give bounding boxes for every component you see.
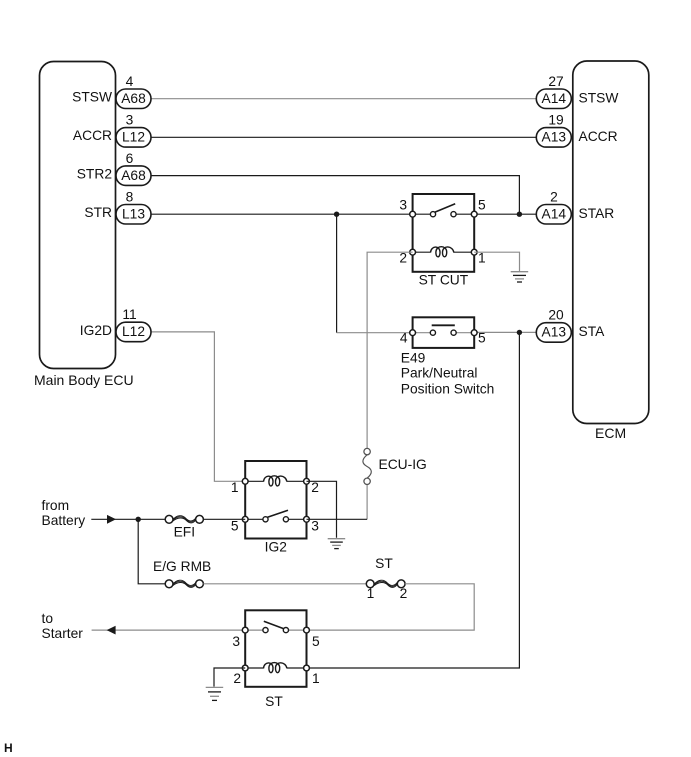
wire ST relay switch row stub pin 5 — [286, 629, 307, 631]
svg-text:A68: A68 — [121, 91, 146, 106]
pin 1 ST relay — [304, 665, 310, 671]
svg-text:STA: STA — [579, 324, 606, 339]
contact circles ST CUT switch — [430, 212, 435, 217]
coil IG2 — [264, 476, 287, 486]
svg-text:A13: A13 — [542, 325, 567, 340]
wire ST CUT pin1 to ground — [474, 252, 519, 271]
svg-text:STR: STR — [84, 205, 112, 220]
pin 2 A14 STAR (ECM) — [536, 189, 614, 224]
svg-text:L12: L12 — [122, 324, 145, 339]
svg-text:Position Switch: Position Switch — [401, 381, 495, 396]
svg-text:20: 20 — [548, 308, 564, 323]
svg-text:STSW: STSW — [579, 91, 619, 106]
relay ST CUT — [399, 194, 486, 288]
pin 3 IG2 — [304, 516, 310, 522]
svg-text:Park/Neutral: Park/Neutral — [401, 366, 478, 381]
svg-text:Main Body ECU: Main Body ECU — [34, 372, 134, 388]
wire ST fuse to ST relay pin5 — [307, 584, 475, 630]
fuse element ECU-IG — [363, 455, 371, 478]
pin 3 ST CUT — [410, 211, 416, 217]
svg-text:ST: ST — [265, 694, 283, 709]
wire E49 row stub pin 4 — [413, 332, 433, 334]
svg-text:ST CUT: ST CUT — [419, 273, 469, 288]
connector oval L12 (IG2D) — [116, 322, 151, 342]
contact circles IG2 switch — [263, 517, 268, 522]
svg-text:5: 5 — [231, 519, 239, 534]
pin 4 A68 STSW (Main Body ECU) — [72, 74, 151, 109]
coil ST relay — [264, 663, 287, 673]
svg-text:2: 2 — [311, 480, 319, 495]
wire ST CUT switch row stub pin 3 — [413, 213, 433, 215]
svg-text:to: to — [42, 611, 54, 626]
ground (ST CUT relay) — [511, 272, 529, 282]
svg-text:3: 3 — [311, 519, 319, 534]
svg-text:A13: A13 — [542, 130, 567, 145]
ground (IG2 relay) — [328, 539, 346, 549]
svg-text:STAR: STAR — [579, 206, 615, 221]
connector oval L13 (STR) — [116, 205, 151, 225]
pin 3 ST relay — [242, 627, 248, 633]
svg-text:4: 4 — [400, 331, 408, 346]
pin 11 L12 IG2D (Main Body ECU) — [80, 307, 151, 342]
fuse element E/G RMB — [173, 580, 196, 587]
svg-text:5: 5 — [312, 634, 320, 649]
svg-text:ACCR: ACCR — [73, 128, 112, 143]
connector oval A68 (STR2) — [116, 166, 151, 186]
wire ST CUT switch row stub pin 5 — [454, 213, 475, 215]
wire IG2 pin3 to ECU-IG — [307, 518, 368, 520]
svg-text:A68: A68 — [121, 168, 146, 183]
pin 5 ST CUT — [471, 211, 477, 217]
wire ST CUT pin2 to ECU-IG — [367, 252, 413, 448]
wire STA down to ST relay pin1 — [307, 332, 520, 668]
wire ST relay coil row stub pin 1 — [287, 667, 307, 669]
coil ST CUT — [431, 247, 454, 257]
fuse terminals ECU-IG — [364, 448, 370, 454]
node junction STR — [334, 212, 339, 217]
svg-text:E/G RMB: E/G RMB — [153, 559, 211, 574]
svg-text:3: 3 — [126, 113, 134, 128]
wire EFI to IG2 pin5 — [203, 518, 245, 520]
svg-text:ECU-IG: ECU-IG — [379, 457, 427, 472]
pin 8 L13 STR (Main Body ECU) — [84, 189, 151, 224]
fuse element ST — [374, 580, 397, 587]
wire E/G RMB to ST fuse — [203, 583, 366, 585]
pin 5 ST relay — [304, 627, 310, 633]
connector oval ECM (STAR) — [536, 205, 571, 225]
svg-text:2: 2 — [550, 189, 558, 204]
ground (ST relay) — [206, 687, 224, 700]
svg-text:5: 5 — [478, 331, 486, 346]
pin 2 ST relay — [242, 665, 248, 671]
svg-text:IG2: IG2 — [265, 540, 287, 555]
wire to starter — [92, 629, 246, 631]
switch blade IG2 — [266, 510, 288, 518]
fuse element EFI — [173, 516, 196, 523]
pin 20 A13 STA (ECM) — [536, 308, 605, 343]
node junction STA — [517, 330, 522, 335]
wire ST CUT coil row stub pin 2 — [413, 251, 431, 253]
wire E49 row stub pin 5 — [454, 332, 475, 334]
wire ST CUT coil row stub pin 1 — [454, 251, 474, 253]
ECM box — [573, 61, 649, 424]
wire battery down to E/G RMB — [138, 519, 165, 584]
svg-text:L13: L13 — [122, 206, 145, 221]
arrow to starter — [107, 626, 116, 635]
node junction STAR — [517, 212, 522, 217]
connector oval L12 (ACCR) — [116, 128, 151, 148]
svg-text:2: 2 — [400, 586, 408, 601]
fuse EFI — [165, 515, 203, 539]
fuse terminals E/G RMB — [165, 580, 173, 588]
wire ST relay switch row stub pin 3 — [245, 629, 265, 631]
pin 27 A14 STSW (ECM) — [536, 74, 618, 109]
fuse ECU-IG — [363, 448, 427, 519]
svg-text:A14: A14 — [542, 91, 567, 106]
fuse ST — [366, 556, 407, 601]
pin 3 L12 ACCR (Main Body ECU) — [73, 113, 151, 148]
wire E49 feed — [337, 332, 413, 334]
switch blade ST relay — [264, 621, 284, 628]
wire STR2 net — [151, 176, 519, 215]
svg-text:1: 1 — [367, 586, 375, 601]
wire ST relay coil row stub pin 2 — [245, 667, 263, 669]
fuse terminals ST — [366, 580, 374, 588]
wire STR down to E49 — [336, 214, 338, 333]
wire ECU-IG fuse to IG2 pin 3 row — [366, 485, 368, 520]
svg-text:EFI: EFI — [174, 525, 195, 540]
wire IG2 coil row stub pin 2 — [287, 480, 307, 482]
closed contact bar E49 — [432, 324, 455, 326]
svg-text:STSW: STSW — [72, 90, 112, 105]
pin 4 E49 — [410, 330, 416, 336]
wire IG2 switch row stub pin 5 — [245, 518, 265, 520]
svg-text:11: 11 — [122, 307, 136, 322]
wire IG2 switch row stub pin 3 — [286, 518, 307, 520]
arrow from battery — [107, 515, 116, 524]
wire E49 pin5 to STA — [474, 331, 536, 333]
contact circles E49 — [430, 330, 435, 335]
fuse terminals EFI — [165, 515, 173, 523]
switch E49 Park/Neutral Position Switch — [400, 317, 495, 396]
connector oval ECM (ACCR) — [536, 128, 571, 148]
wire ST relay pin2 to ground — [214, 668, 245, 687]
node battery junction — [136, 517, 141, 522]
svg-text:L12: L12 — [122, 130, 145, 145]
svg-text:A14: A14 — [542, 206, 567, 221]
pin 19 A13 ACCR (ECM) — [536, 113, 617, 148]
svg-text:27: 27 — [548, 74, 563, 89]
connector oval A68 (STSW) — [116, 89, 151, 109]
Main Body ECU box — [40, 62, 116, 369]
svg-text:4: 4 — [126, 74, 134, 89]
wire STSW net — [151, 98, 536, 100]
svg-text:ST: ST — [375, 556, 393, 571]
svg-text:8: 8 — [126, 189, 134, 204]
svg-text:3: 3 — [232, 634, 240, 649]
svg-text:IG2D: IG2D — [80, 323, 112, 338]
svg-text:19: 19 — [548, 113, 564, 128]
svg-text:1: 1 — [312, 671, 320, 686]
relay ST — [232, 610, 320, 709]
pin 6 A68 STR2 (Main Body ECU) — [77, 151, 151, 186]
connector oval ECM (STA) — [536, 323, 571, 343]
svg-text:5: 5 — [478, 198, 486, 213]
wire IG2 pin2 to ground — [307, 481, 337, 538]
wire ACCR net — [151, 136, 536, 138]
svg-text:1: 1 — [231, 480, 239, 495]
pin 5 E49 — [471, 330, 477, 336]
svg-text:STR2: STR2 — [77, 167, 112, 182]
pin 2 IG2 — [304, 478, 310, 484]
svg-text:H: H — [4, 741, 13, 755]
relay IG2 — [231, 461, 319, 555]
wire ST CUT pin5 to STAR — [474, 213, 536, 215]
pin 2 ST CUT — [410, 249, 416, 255]
svg-text:ACCR: ACCR — [579, 129, 618, 144]
svg-text:E49: E49 — [401, 350, 426, 365]
svg-text:6: 6 — [126, 151, 134, 166]
contact circles ST relay switch — [263, 628, 268, 633]
wire IG2 coil row stub pin 1 — [245, 480, 263, 482]
pin 1 ST CUT — [471, 249, 477, 255]
wire from battery — [91, 518, 165, 520]
svg-text:2: 2 — [233, 671, 241, 686]
fuse E/G RMB — [153, 559, 211, 588]
switch blade ST CUT — [434, 204, 456, 213]
svg-text:Battery: Battery — [42, 513, 86, 528]
pin 1 IG2 — [242, 478, 248, 484]
svg-text:Starter: Starter — [42, 626, 84, 641]
pin 5 IG2 — [242, 516, 248, 522]
svg-text:from: from — [42, 498, 70, 513]
wire IG2D net — [151, 332, 245, 481]
wire STR net — [151, 213, 413, 215]
connector oval ECM (STSW) — [536, 89, 571, 109]
svg-text:ECM: ECM — [595, 425, 626, 441]
svg-text:3: 3 — [399, 198, 407, 213]
